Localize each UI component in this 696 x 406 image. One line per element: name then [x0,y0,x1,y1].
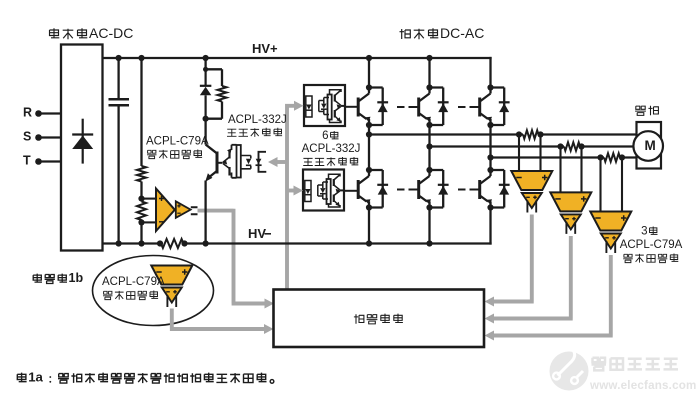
wire Q7 gate lead [219,162,223,164]
node HV- chopper [203,240,209,246]
svg-text:1a: 1a [28,370,43,385]
watermark logo circle [550,344,589,391]
wire S input to rectifier [39,136,62,138]
signal branch to chopper opto [274,160,287,164]
wire leg2 HV+ to cell [428,58,430,88]
node shunt U left [516,131,522,137]
transistor Q5 bottom IGBT leg2 with diode [419,167,449,211]
arrow into MCU right 3 [485,331,495,341]
transistor Q7 chopper IGBT [205,145,217,244]
wire leg2 to HV- [428,208,430,244]
microcontroller block U9 [274,290,485,348]
label M motor [645,138,656,153]
node divider top [138,55,144,61]
node phase V [426,143,432,149]
wire HV+ rail [103,57,492,59]
svg-text:3: 3 [641,225,647,237]
node shunt W left [597,154,603,160]
node inverter leg2 top [426,55,432,61]
signal wire U7 to MCU [492,236,573,319]
wire sense U right tap [539,135,541,172]
reference ellipse for figure 1b [93,256,214,326]
svg-text:ACPL-C79A: ACPL-C79A [146,135,209,147]
wire leg1 to HV- [368,208,370,244]
node shunt V right [578,143,584,149]
svg-text:ACPL-332J: ACPL-332J [228,114,287,126]
svg-text:HV+: HV+ [252,41,278,56]
wire dashed gate bottom leg2 [397,189,419,191]
label 3组 [641,225,657,237]
signal wire U8 to MCU [492,255,613,336]
motor housing block [637,122,662,169]
wire R input to rectifier [39,112,62,114]
svg-text:www.elecfans.com: www.elecfans.com [589,379,696,392]
caption figure 1a [17,370,274,385]
arrow into MCU right 1 [485,297,495,307]
svg-text:1b: 1b [69,271,84,285]
label ACPL-C79A in ellipse [102,276,165,288]
terminal dot T [35,158,42,165]
node divider bottom on HV- [138,240,144,246]
wire divider mid [140,182,142,199]
op-amp U2 out plus sign [177,204,180,207]
wire leg2 mid [428,125,430,170]
wire chopper split bottom [206,102,222,119]
svg-text:T: T [23,154,31,168]
wire HV- rail right [184,242,492,244]
wire dashed gate bottom leg3 [458,189,480,191]
resistor chopper R2 [218,86,227,102]
wire chopper to IGBT collector [204,119,206,145]
resistor divider lower [137,202,146,221]
wire phase V shunt to motor [580,145,638,147]
label 电机 motor [635,106,658,116]
label ACPL-332J group [302,143,361,155]
label rectifier section 整流器 AC-DC [50,25,134,41]
node chopper mid [203,116,209,122]
wire chopper split top [206,69,222,86]
isolation amp U7 phase V current sensor [550,192,591,234]
arrow into MCU left upper [265,299,275,309]
label HV- [248,226,271,241]
isolation amp U5 ACPL-C79A dc current sensor [151,266,192,308]
resistor shunt phase W [604,153,620,161]
signal wire U5 to MCU [170,309,265,330]
label 6组 [322,130,338,142]
label 栅极驱动器 chopper [227,128,282,137]
wire phase W shunt to motor [620,156,638,158]
transistor Q4 bottom IGBT leg1 with diode [358,167,388,211]
wire U2 differential outputs [191,207,198,214]
svg-text:M: M [645,138,656,153]
wire sense W right tap [621,158,623,212]
capacitor C1 [109,99,130,105]
wire dashed gate top leg2 [397,106,419,108]
label 栅极驱动器 group [303,157,358,166]
resistor shunt phase U [523,130,539,138]
wire HV- rail left [103,242,162,244]
gate driver Q7 boot diode [241,156,252,169]
svg-text:ACPL-C79A: ACPL-C79A [102,276,165,288]
op-amp U2 output stage [176,201,191,218]
diode D1 inside rectifier [72,119,93,164]
transistor Q3 top IGBT leg3 with diode [480,84,510,128]
svg-text:6: 6 [322,130,328,142]
svg-text:R: R [23,106,32,120]
wire dashed gate top leg3 [458,106,480,108]
node HV- shunt right [181,240,187,246]
svg-text:S: S [23,130,31,144]
node HV- leg2 [426,240,432,246]
resistor divider upper [137,166,146,182]
svg-text:HV: HV [248,226,266,241]
wire sense U left tap [518,135,520,172]
arrow into MCU left lower [264,324,274,334]
signal wire U6 to MCU [492,215,534,302]
arrow into top driver box [294,101,304,111]
resistor shunt phase V [564,142,580,150]
wire to V-amp plus input [142,198,157,200]
label 电流传感器 in ellipse [103,291,158,300]
resistor shunt R-dc [161,239,184,248]
node HV- cap [116,240,122,246]
watermark 电子发烧友 [592,358,679,371]
isolation amp U6 phase U current sensor [511,171,552,213]
op-amp U2 minus sign [159,221,164,223]
diode D2 clamp [200,69,212,118]
wire leg3 to HV- corner [489,208,491,245]
label phase input S [23,130,31,144]
node cap top [116,55,122,61]
node HV- leg1 [366,240,372,246]
wire sense W left tap [599,158,601,212]
label ACPL-C79A 3group [620,239,683,251]
wire gate Q1 from top driver [345,106,359,108]
node chopper top [203,55,209,61]
motor M1 circle [633,131,663,161]
signal wire voltage sensor to MCU [198,209,266,304]
transistor Q1 top IGBT leg1 with diode [358,84,388,128]
label HV+ [252,41,278,56]
label 参考图1b [33,271,83,285]
wire divider from HV+ [140,58,142,166]
arrow into chopper opto [268,157,278,167]
op-amp U2 out minus sign [177,212,180,214]
node divider mid [138,196,144,202]
op-amp U2 voltage sensor main [156,189,175,232]
wire divider to HV- rail [140,222,142,243]
wire to V-amp minus input [142,221,157,223]
opto LED input Q7 driver [256,152,267,172]
rectifier bridge block [61,45,103,251]
wire phase U shunt to motor [539,133,638,135]
capacitor C1 wire bottom [117,105,119,243]
node chopper split [203,67,208,72]
arrow into MCU right 2 [485,314,495,324]
label ACPL-C79A [146,135,209,147]
capacitor C1 wire top [117,58,119,99]
op-amp U2 plus sign [159,196,164,201]
label ACPL-332J chopper driver [228,114,287,126]
label inverter section 变频器 DC-AC [400,25,485,41]
label 电压传感器 [147,150,202,159]
label 电流传感器 3group [623,254,678,263]
node phase W [487,154,493,160]
transistor Q6 bottom IGBT leg3 with diode [480,167,510,211]
svg-text:AC-DC: AC-DC [89,25,133,41]
transistor Q2 top IGBT leg2 with diode [419,84,449,128]
wire leg1 mid [368,125,370,170]
wire phase V to shunt [430,145,565,147]
gate driver U3 ACPL-332J top box [304,85,345,126]
terminal dot S [35,134,42,141]
gate driver U4 ACPL-332J bottom box [303,170,344,211]
gate driver Q7 internals [222,145,241,178]
signal wire MCU to gate drivers bus [287,104,297,290]
label phase input T [23,154,31,168]
wire sense V left tap [559,147,561,193]
wire leg3 mid [489,125,491,170]
signal branch to bottom driver box [287,189,296,193]
svg-text:DC-AC: DC-AC [440,25,484,41]
node divider low [138,219,144,225]
wire gate Q4 from bottom driver [344,190,359,192]
node shunt U right [537,131,543,137]
node HV- shunt left [157,240,163,246]
wire phase U to shunt [369,133,523,135]
wire chopper from HV+ [204,58,206,69]
label 微控制器 [354,314,403,324]
wire phase W to shunt [491,156,605,158]
node inverter leg1 top [366,55,372,61]
wire leg3 HV+ corner to cell [489,57,491,88]
node phase U [366,131,372,137]
svg-text:ACPL-332J: ACPL-332J [302,143,361,155]
wire sense V right tap [580,147,582,193]
terminal dot R [35,110,42,117]
node shunt V left [557,143,563,149]
svg-text:ACPL-C79A: ACPL-C79A [620,239,683,251]
wire T input to rectifier [39,160,62,162]
isolation amp U8 phase W current sensor [590,212,631,254]
label phase input R [23,106,32,120]
wire leg1 HV+ to cell [368,58,370,88]
arrow into bottom driver box [294,186,304,196]
node shunt W right [619,154,625,160]
